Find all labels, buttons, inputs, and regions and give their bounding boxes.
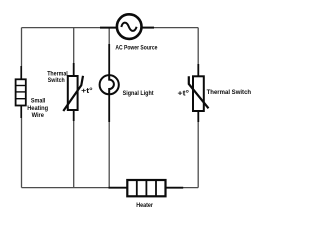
label: Small Heating Wire — [27, 98, 48, 119]
wire top — [22, 27, 199, 29]
label: Thermal Switch (left) — [47, 70, 68, 84]
lead thermal switch left bottom — [73, 110, 75, 122]
wire right vertical — [197, 28, 199, 188]
lead AC source right — [141, 27, 154, 29]
AC power source — [117, 14, 142, 39]
svg-text:Wire: Wire — [32, 112, 45, 119]
lead thermal switch left top — [73, 63, 75, 77]
small heating wire element — [16, 79, 26, 105]
wire left vertical — [21, 28, 23, 188]
lead thermal switch right bottom — [197, 111, 199, 123]
svg-text:Switch: Switch — [48, 77, 65, 84]
svg-text:Heater: Heater — [136, 202, 153, 209]
lead heater right — [165, 187, 184, 189]
heater — [127, 180, 165, 196]
svg-text:Small: Small — [31, 98, 46, 105]
wire branch signal light — [108, 28, 110, 188]
svg-text:+t°: +t° — [81, 86, 93, 95]
thermal switch right — [189, 76, 209, 111]
wire branch thermal switch left — [73, 28, 75, 188]
signal light — [100, 75, 119, 94]
svg-text:+t°: +t° — [178, 89, 190, 98]
lead AC source left — [100, 27, 117, 29]
svg-text:AC Power Source: AC Power Source — [115, 44, 157, 51]
lead heating wire top — [20, 66, 22, 80]
svg-text:Heating: Heating — [27, 105, 48, 112]
thermal switch left — [63, 76, 83, 111]
svg-text:Signal Light: Signal Light — [123, 90, 154, 97]
lead signal light top — [108, 44, 110, 75]
lead thermal switch right top — [197, 64, 199, 78]
lead signal light bottom — [108, 94, 110, 122]
wire bottom — [22, 187, 199, 189]
lead heating wire bottom — [20, 105, 22, 118]
lead heater left — [109, 187, 129, 189]
svg-text:Thermal Switch: Thermal Switch — [207, 89, 252, 96]
